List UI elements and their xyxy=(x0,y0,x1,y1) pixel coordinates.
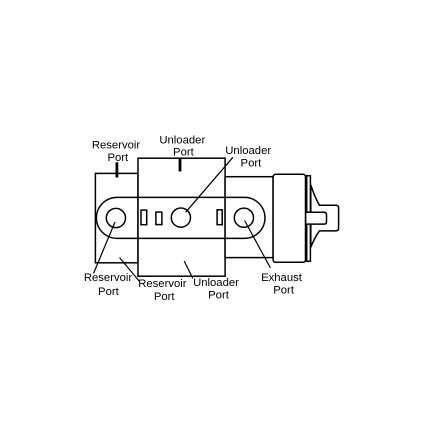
leader line: bottom-middle reservoir port to block bottom xyxy=(120,258,140,282)
svg-text:Unloader: Unloader xyxy=(193,277,239,289)
svg-text:Port: Port xyxy=(273,284,295,296)
svg-text:Reservoir: Reservoir xyxy=(84,272,133,284)
end cap rectangle xyxy=(273,174,305,262)
flange strip xyxy=(307,176,311,262)
svg-text:Port: Port xyxy=(154,291,176,303)
svg-text:Port: Port xyxy=(241,158,263,170)
leader line: bottom-left reservoir port to left circle xyxy=(94,222,116,274)
svg-text:Reservoir: Reservoir xyxy=(92,139,141,151)
svg-text:Port: Port xyxy=(98,286,120,298)
svg-text:Port: Port xyxy=(208,289,230,301)
leader line: top-right unloader port to middle circle xyxy=(186,157,233,212)
leader line: exhaust port from right circle xyxy=(245,221,271,268)
leader tick: top-left reservoir port xyxy=(116,162,119,177)
small window rect 1 xyxy=(141,210,147,225)
central body rectangle xyxy=(138,158,225,276)
svg-text:Unloader: Unloader xyxy=(225,145,271,157)
right circle (exhaust port hole) xyxy=(234,208,253,227)
leader line: bottom unloader port into body xyxy=(184,261,193,278)
svg-text:Port: Port xyxy=(173,147,195,159)
svg-text:Port: Port xyxy=(107,152,129,164)
fitting bell profile xyxy=(311,185,339,247)
left circle (reservoir port hole) xyxy=(106,208,125,227)
middle circle (unloader port hole) xyxy=(171,208,190,227)
neck rectangle xyxy=(225,177,273,258)
stadium (valve bore outline) xyxy=(96,197,265,238)
svg-text:Exhaust: Exhaust xyxy=(261,272,303,284)
svg-text:Unloader: Unloader xyxy=(159,134,205,146)
fitting tab (nipple) xyxy=(306,212,326,224)
small window rect 3 xyxy=(217,210,222,225)
leader tick: top-middle unloader port xyxy=(179,158,182,172)
small window rect 2 xyxy=(156,212,162,225)
svg-text:Reservoir: Reservoir xyxy=(138,278,187,290)
left block (reservoir port body section) xyxy=(95,173,138,262)
